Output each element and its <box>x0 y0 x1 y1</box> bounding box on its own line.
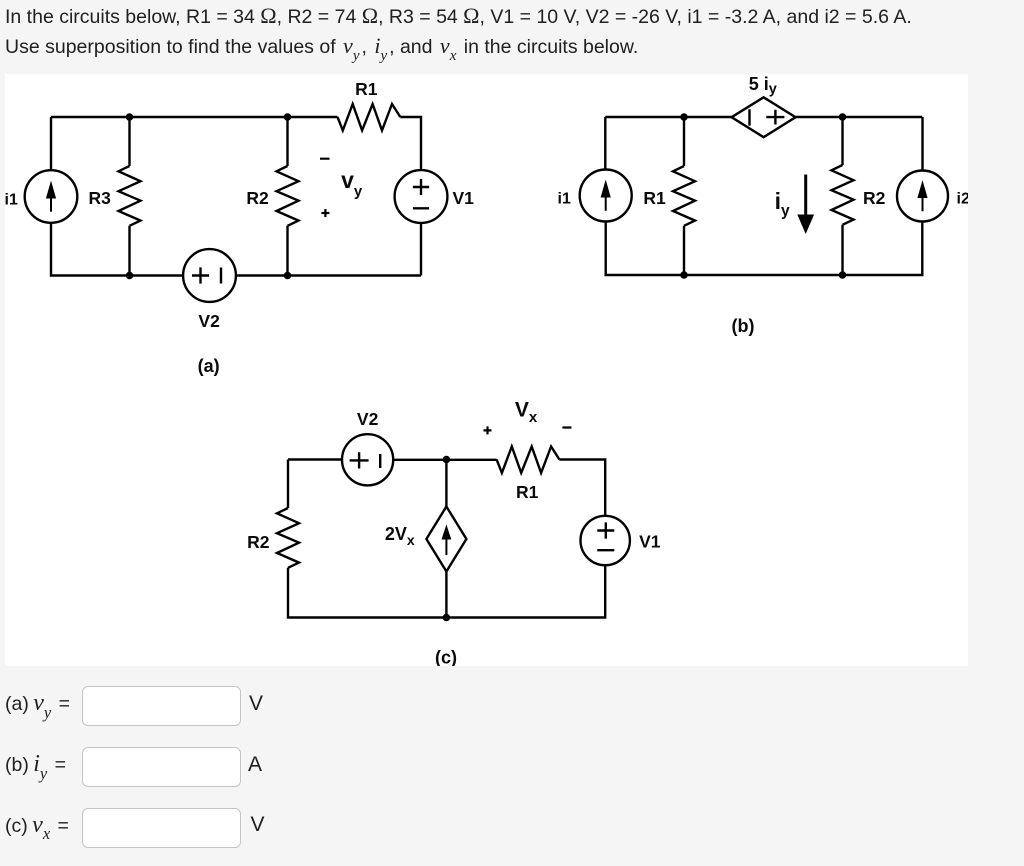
svg-text:Vx: Vx <box>515 399 538 427</box>
svg-text:2Vx: 2Vx <box>385 524 415 548</box>
svg-text:V1: V1 <box>639 532 661 552</box>
svg-text:R2: R2 <box>863 188 886 208</box>
svg-text:(b): (b) <box>732 316 755 336</box>
svg-text:vy: vy <box>341 167 363 200</box>
svg-text:R1: R1 <box>643 188 666 208</box>
svg-text:R3: R3 <box>89 188 112 208</box>
svg-text:R2: R2 <box>247 532 270 552</box>
svg-text:i1: i1 <box>5 191 18 208</box>
svg-text:5 iy: 5 iy <box>749 74 777 97</box>
svg-text:i2: i2 <box>957 190 969 207</box>
svg-text:V2: V2 <box>357 409 379 429</box>
svg-text:iy: iy <box>775 188 790 220</box>
svg-text:R1: R1 <box>355 79 378 99</box>
svg-text:V1: V1 <box>452 188 474 208</box>
svg-text:R1: R1 <box>516 482 539 502</box>
svg-text:V2: V2 <box>198 311 220 331</box>
svg-text:i1: i1 <box>558 190 571 207</box>
svg-text:R2: R2 <box>246 188 269 208</box>
svg-text:(c): (c) <box>435 648 457 667</box>
svg-text:(a): (a) <box>198 356 220 376</box>
